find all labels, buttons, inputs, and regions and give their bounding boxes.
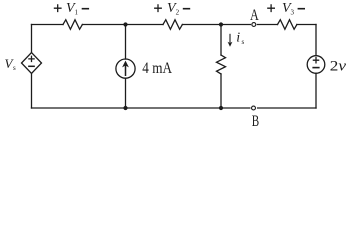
label plus of V1 <box>54 4 62 12</box>
svg-text:A: A <box>250 7 259 24</box>
wire top between R2 and node A <box>182 24 250 26</box>
svg-text:i: i <box>236 31 240 46</box>
label V3 <box>282 1 295 16</box>
label minus of V3 <box>298 8 305 10</box>
label V1 <box>66 1 79 16</box>
dependent voltage source Vs diamond <box>22 53 42 74</box>
svg-text:2v: 2v <box>330 59 347 75</box>
resistor R4 branch lower wire <box>220 74 222 108</box>
junction dot top of I1 branch <box>123 22 127 26</box>
minus mark inside 2v source <box>313 67 319 69</box>
resistor R4 branch upper wire <box>220 25 222 56</box>
svg-text:2: 2 <box>176 9 180 17</box>
label minus of V1 <box>82 8 89 10</box>
svg-text:3: 3 <box>291 9 295 17</box>
label is <box>236 31 244 47</box>
junction dot bottom of I1 branch <box>123 106 127 110</box>
minus mark inside Vs <box>29 65 34 67</box>
label plus of V3 <box>267 4 275 12</box>
voltage source 2v circle <box>307 56 325 74</box>
current source I1 branch upper wire <box>125 25 127 60</box>
resistor R4 vertical zigzag <box>217 55 226 74</box>
junction dot top of R4 branch <box>219 22 223 26</box>
svg-text:B: B <box>252 113 259 128</box>
plus mark inside 2v source <box>313 58 318 63</box>
resistor R1 (V1) zigzag <box>63 20 82 30</box>
wire left branch lower <box>31 73 33 108</box>
wire left branch upper <box>31 25 33 53</box>
junction dot bottom of R4 branch <box>219 106 223 110</box>
wire top between node A and R3 <box>257 24 277 26</box>
label node B <box>252 113 259 130</box>
label node A <box>250 7 259 24</box>
label 2v <box>330 59 347 75</box>
node B terminal circle <box>252 106 256 110</box>
node A terminal circle <box>252 23 256 27</box>
current arrow is (down) <box>228 34 233 47</box>
wire top-left segment <box>32 24 64 26</box>
wire bottom-left segment <box>32 107 250 109</box>
svg-text:s: s <box>13 64 16 72</box>
label V2 <box>167 1 180 16</box>
resistor R3 (V3) zigzag <box>278 20 297 30</box>
label plus of V2 <box>154 4 162 12</box>
wire top between R1 and R2 <box>82 24 163 26</box>
current source I1 branch lower wire <box>125 78 127 108</box>
label 4 mA <box>142 60 172 77</box>
plus mark inside Vs <box>29 56 34 61</box>
resistor R2 (V2) zigzag <box>163 20 182 30</box>
svg-text:1: 1 <box>75 9 79 17</box>
wire bottom-right segment <box>258 107 316 109</box>
arrow inside current source I1 <box>122 61 129 76</box>
current source I1 circle (4 mA) <box>116 59 135 78</box>
svg-text:s: s <box>242 38 245 46</box>
wire right branch upper <box>315 25 317 56</box>
svg-text:4 mA: 4 mA <box>142 60 172 77</box>
wire top-right segment <box>297 24 316 26</box>
label minus of V2 <box>183 8 190 10</box>
label Vs <box>5 56 17 72</box>
wire right branch lower <box>315 73 317 108</box>
